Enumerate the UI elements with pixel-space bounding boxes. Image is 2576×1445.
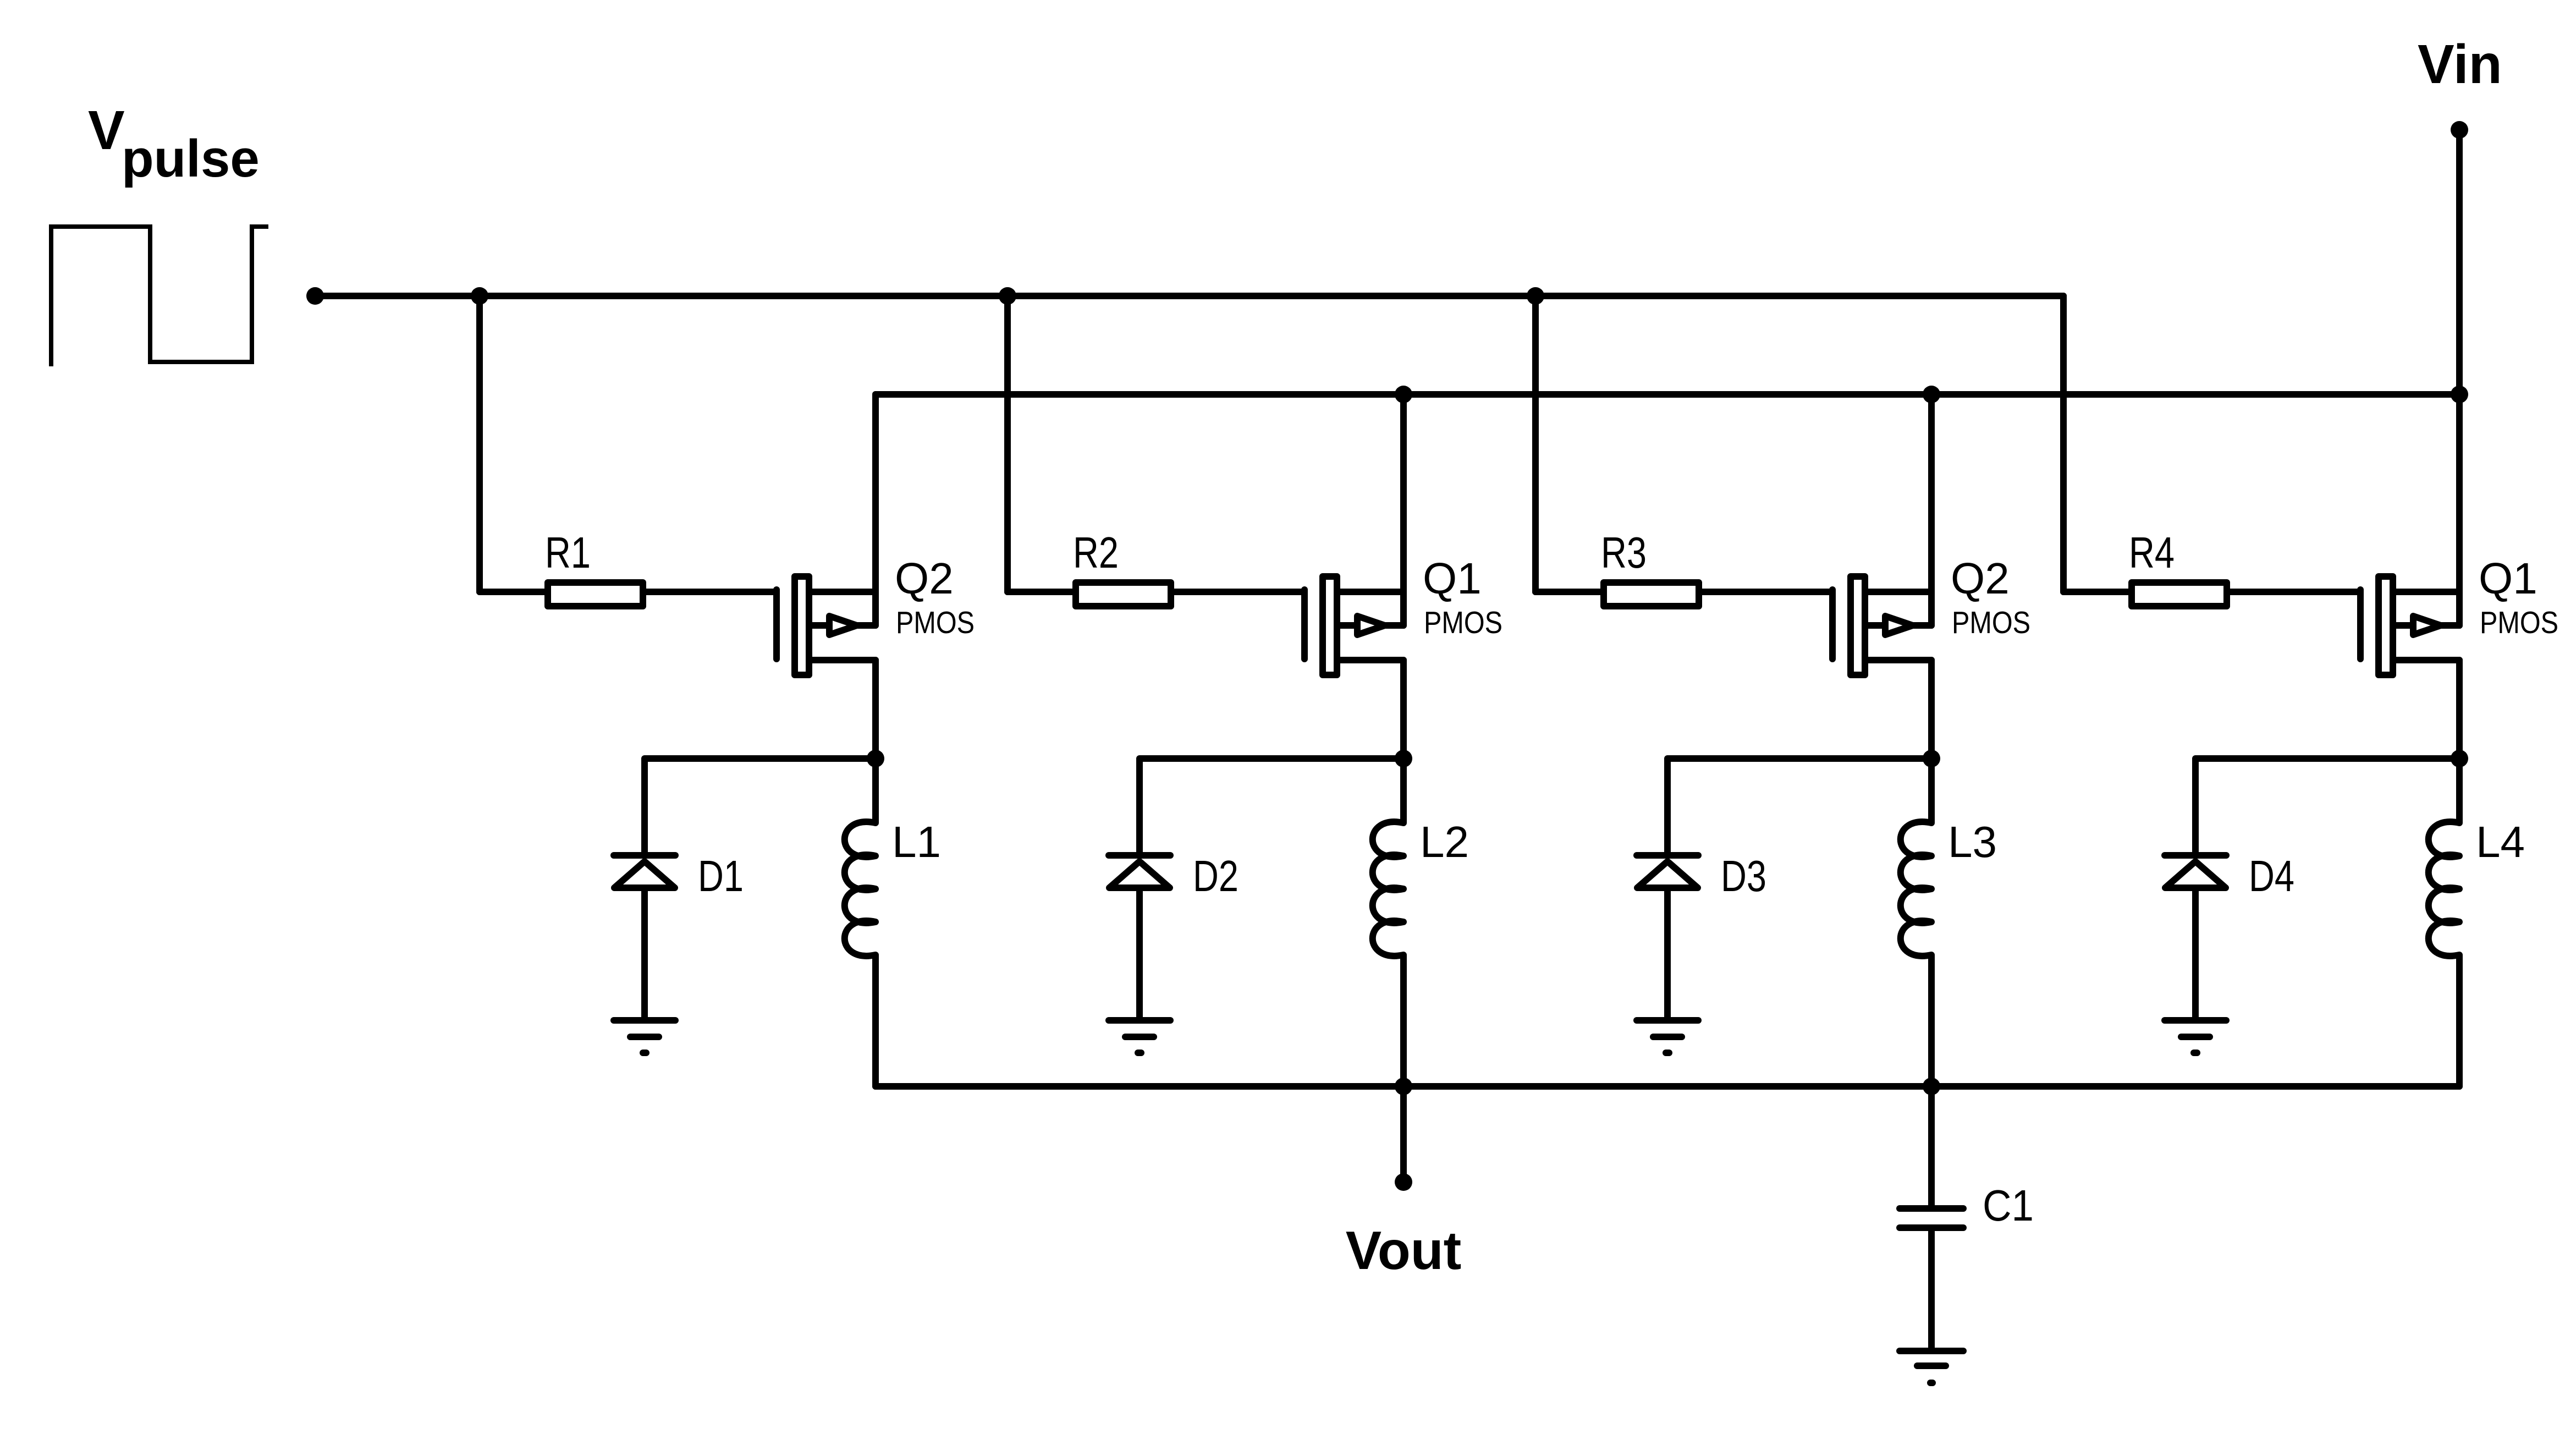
node junction bottom bus / Vout [1395,1078,1412,1095]
wire bus1 drop to R2 [1004,296,1011,592]
node drain stage 3 [1923,750,1940,767]
wire R3 left lead [1535,589,1600,595]
wire source of Q2 to Vin bus [872,394,879,625]
wire R2 left lead [1008,589,1072,595]
transistor Q1 PMOS stage 2 [1304,576,1403,675]
svg-text:D3: D3 [1721,851,1766,900]
wire bus1 drop to R3 [1532,296,1539,592]
wire drain of Q1 to node [1400,660,1407,759]
inductor L2 [1373,759,1403,1086]
wire bus1 drop to R1 [476,296,483,592]
capacitor C1 [1900,1208,1963,1228]
node junction bottom bus / C1 [1923,1078,1940,1095]
transistor Q2 PMOS stage 3 [1832,576,1931,675]
svg-text:PMOS: PMOS [1424,605,1502,640]
wire node to diode D4 [2195,759,2459,855]
ground below C1 [1900,1351,1963,1383]
diode D1 [614,855,675,1020]
svg-text:R3: R3 [1601,528,1647,577]
svg-text:Vin: Vin [2418,34,2502,95]
wire drain of Q2 to node [1928,660,1935,759]
wire output bus (bottom) [876,1083,2459,1090]
svg-text:Vout: Vout [1346,1220,1461,1281]
svg-text:R4: R4 [2129,528,2175,577]
wire drain of Q1 to node [2456,660,2463,759]
ground below D3 [1637,1020,1698,1053]
wire R2 to gate of Q1 [1174,589,1304,595]
node drain stage 4 [2451,750,2468,767]
wire node to diode D1 [645,759,876,855]
node drain stage 2 [1395,750,1412,767]
diode D4 [2165,855,2226,1020]
inductor L4 [2429,759,2459,1086]
terminal dot Vout [1395,1173,1412,1191]
transistor Q2 PMOS stage 1 [777,576,876,675]
node drain stage 1 [867,750,884,767]
svg-text:V: V [88,100,125,161]
Vpulse square-wave symbol [51,227,268,366]
ground below D1 [614,1020,675,1053]
svg-text:L2: L2 [1420,817,1469,866]
wire Vpulse bus (gate bus) [315,293,2063,299]
svg-text:D1: D1 [698,851,744,900]
wire R4 to gate of Q1 [2230,589,2360,595]
svg-text:PMOS: PMOS [2480,605,2558,640]
ground below D2 [1109,1020,1170,1053]
svg-text:PMOS: PMOS [1952,605,2030,640]
svg-text:C1: C1 [1983,1181,2034,1230]
node junction bus2/Vin [2451,386,2468,403]
wire source of Q2 to Vin bus [1928,394,1935,625]
svg-text:PMOS: PMOS [896,605,975,640]
transistor Q1 PMOS stage 4 [2360,576,2459,675]
node junction bus1/R2 [999,287,1016,305]
node junction bus1/R1 [471,287,488,305]
svg-text:R1: R1 [545,528,591,577]
wire C1 bottom lead [1928,1228,1935,1351]
wire Vout stub [1400,1086,1407,1182]
wire source of Q1 to Vin bus [2456,394,2463,625]
wire Vin vertical [2456,130,2463,625]
resistor R1 [548,583,643,606]
wire node to diode D2 [1140,759,1403,855]
inductor L1 [845,759,876,1086]
wire node to diode D3 [1667,759,1931,855]
node junction bus2/Q stage3 [1923,386,1940,403]
svg-text:L1: L1 [892,817,941,866]
svg-text:Q2: Q2 [1951,554,2010,603]
inductor L3 [1901,759,1931,1086]
node junction bus1/R3 [1527,287,1544,305]
wire Vin bus (source bus) [876,391,2459,398]
svg-text:Q1: Q1 [2479,554,2538,603]
node Vpulse label [88,100,260,188]
resistor R4 [2132,583,2227,606]
wire R4 left lead [2063,589,2128,595]
wire R1 to gate of Q2 [646,589,777,595]
wire R3 to gate of Q2 [1702,589,1832,595]
node Vout label [1346,1220,1461,1281]
wire source of Q1 to Vin bus [1400,394,1407,625]
wire C1 top lead [1928,1086,1935,1208]
svg-text:Q2: Q2 [895,554,954,603]
wire bus1 right drop to R4 row [2060,296,2067,592]
diode D2 [1109,855,1170,1020]
resistor R3 [1604,583,1699,606]
svg-text:L4: L4 [2476,817,2525,866]
svg-text:pulse: pulse [122,129,260,188]
svg-text:R2: R2 [1073,528,1119,577]
wire drain of Q2 to node [872,660,879,759]
terminal dot Vin [2451,121,2468,139]
ground below D4 [2165,1020,2226,1053]
node junction bus2/Q stage2 [1395,386,1412,403]
node Vin label [2418,34,2502,95]
svg-text:Q1: Q1 [1423,554,1482,603]
resistor R2 [1076,583,1171,606]
diode D3 [1637,855,1698,1020]
svg-text:D4: D4 [2249,851,2294,900]
wire R1 left lead [480,589,544,595]
terminal dot Vpulse [306,287,324,305]
svg-text:D2: D2 [1193,851,1239,900]
svg-text:L3: L3 [1948,817,1997,866]
